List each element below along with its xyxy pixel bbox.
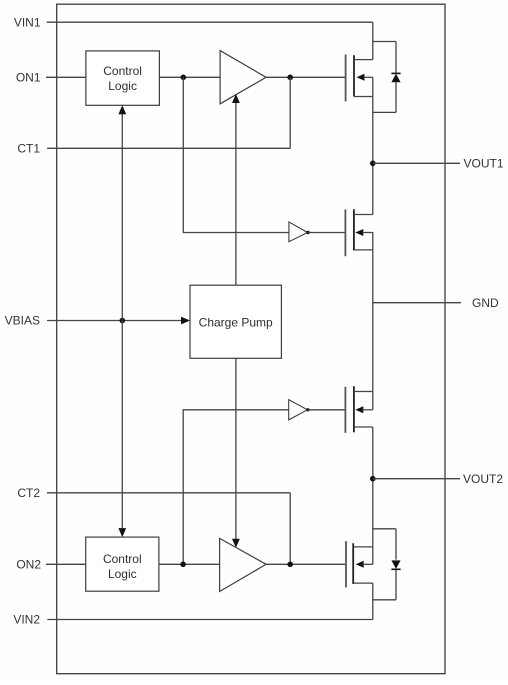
node dot gate node 1 xyxy=(287,75,293,81)
arrow down into U2 xyxy=(118,528,126,537)
transistor Q4 channel plate xyxy=(352,543,354,584)
IC outer boundary box xyxy=(57,4,445,674)
svg-text:CT1: CT1 xyxy=(17,142,40,156)
control logic U1 box xyxy=(86,51,159,105)
svg-text:Logic: Logic xyxy=(108,567,137,581)
wire CT2 pin line xyxy=(47,492,290,494)
wire branch from ON2 node up to small buffer S2 xyxy=(183,410,289,565)
transistor Q3 bottom stub xyxy=(354,426,373,428)
wire ON2 pin line xyxy=(46,563,86,565)
wire CT1 pin line xyxy=(47,147,290,149)
wire U1 output to buffer B1 xyxy=(159,76,220,78)
buffer B2 triangle xyxy=(220,538,267,591)
node dot VOUT2 xyxy=(370,476,376,482)
transistor Q3 channel plate xyxy=(353,386,355,432)
wire VIN1 pin line xyxy=(47,21,373,23)
wire diode D1 top branch xyxy=(373,41,396,43)
diode D1 body diode xyxy=(395,42,397,74)
transistor Q3 body arrow xyxy=(355,406,363,413)
wire VIN2 pin line xyxy=(47,619,372,621)
node dot VOUT1 xyxy=(370,161,376,167)
transistor Q1 source stub xyxy=(354,96,373,98)
arrow up into U1 xyxy=(118,105,126,114)
svg-text:ON1: ON1 xyxy=(16,71,41,85)
wire diode D2 top branch xyxy=(373,528,396,530)
wire GND pin line xyxy=(373,302,461,304)
svg-text:VIN2: VIN2 xyxy=(13,613,40,627)
charge pump box xyxy=(190,285,281,358)
control logic U2 box xyxy=(86,537,159,591)
buffer B1 triangle xyxy=(220,51,266,104)
wire VBIAS pin line with arrow into charge pump xyxy=(47,320,182,322)
transistor Q1 body arrow xyxy=(357,74,365,81)
transistor Q1 gate plate xyxy=(345,55,347,102)
transistor Q4 body arrow xyxy=(356,561,364,568)
node dot gate node 2 xyxy=(287,562,293,568)
wire S2 output to Q3 gate xyxy=(307,409,345,411)
wire ON1 pin line xyxy=(46,76,86,78)
transistor Q3 top stub xyxy=(354,391,373,393)
svg-text:Control: Control xyxy=(103,552,142,566)
svg-text:VBIAS: VBIAS xyxy=(5,314,40,328)
node dot on ON1 gate-drive line xyxy=(181,75,187,81)
transistor Q4 gate plate xyxy=(345,541,347,587)
diode D2 body diode xyxy=(395,529,397,560)
buffer S2 small triangle xyxy=(289,400,308,420)
wire Q1 source rail down to VOUT1 and Q2 xyxy=(372,97,374,215)
wire VOUT1 pin line xyxy=(373,162,460,164)
wire U2 output to buffer B2 xyxy=(159,563,220,565)
transistor Q2 body arrow xyxy=(355,229,363,236)
wire Q2 body-to-source xyxy=(372,232,374,250)
wire branch down from ON1 node to small buffer S1 xyxy=(183,77,289,232)
node dot on ON2 gate-drive line xyxy=(180,562,186,568)
transistor Q4 top stub xyxy=(353,546,373,548)
svg-text:VOUT2: VOUT2 xyxy=(463,472,503,486)
svg-text:CT2: CT2 xyxy=(17,486,40,500)
transistor Q3 gate plate xyxy=(344,387,346,433)
buffer S1 small triangle xyxy=(289,222,308,242)
wire charge pump up to B1 with arrow xyxy=(235,96,237,285)
wire CT2 vertical branch xyxy=(289,493,291,565)
transistor Q1 drain stub xyxy=(354,59,373,61)
svg-text:GND: GND xyxy=(472,296,499,310)
transistor Q2 gate plate xyxy=(344,209,346,256)
wire S1 output to Q2 gate xyxy=(308,232,346,234)
wire Q1 body-to-source xyxy=(372,77,374,96)
wire Q2 source rail down through GND to Q3 xyxy=(372,250,374,410)
wire VIN1 rail down to Q1 drain xyxy=(372,22,374,59)
wire diode D1 bottom branch xyxy=(373,111,396,113)
wire control line U1 to U2 xyxy=(121,108,123,535)
svg-text:VIN1: VIN1 xyxy=(14,15,41,29)
svg-text:VOUT1: VOUT1 xyxy=(464,157,504,171)
node small dot S1 tip xyxy=(306,231,309,234)
transistor Q4 bottom stub xyxy=(353,582,373,584)
svg-text:ON2: ON2 xyxy=(16,558,41,572)
wire B1 output to Q1 gate xyxy=(266,76,346,78)
transistor Q2 drain stub xyxy=(354,214,373,216)
node small dot S2 tip xyxy=(306,408,309,411)
svg-text:Control: Control xyxy=(103,64,142,78)
transistor Q1 channel plate xyxy=(353,55,355,96)
wire B2 output to Q4 gate xyxy=(266,563,346,565)
svg-text:Logic: Logic xyxy=(108,79,137,93)
wire diode D2 bottom branch xyxy=(373,599,396,601)
wire VOUT2 pin line xyxy=(373,478,460,480)
wire Q4 drain rail down to VIN2 xyxy=(372,583,374,619)
wire Q3 bottom rail down to VOUT2 and Q4 xyxy=(372,427,374,564)
svg-text:Charge Pump: Charge Pump xyxy=(199,316,273,330)
wire charge pump down to B2 with arrow xyxy=(235,358,237,546)
wire CT1 vertical branch xyxy=(289,77,291,148)
transistor Q2 channel plate xyxy=(353,209,355,250)
transistor Q2 source stub xyxy=(354,249,373,251)
node dot VBIAS junction xyxy=(120,318,126,324)
